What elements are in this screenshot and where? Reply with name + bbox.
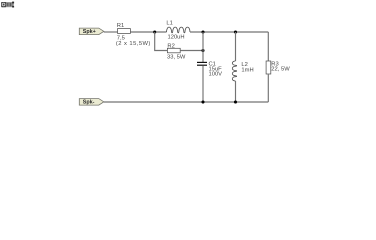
wire C1 branch lower	[202, 66, 204, 102]
wire L2 branch lower	[235, 81, 237, 102]
svg-text:1mH: 1mH	[241, 67, 253, 73]
node junction R2 output	[201, 49, 204, 52]
svg-text:Spk-: Spk-	[83, 100, 95, 106]
resistor R1	[116, 23, 151, 47]
watermark label top-left	[1, 2, 14, 8]
svg-text:22, 5W: 22, 5W	[271, 67, 290, 73]
capacitor C1	[197, 61, 222, 77]
node junction bottom of L2 branch	[234, 100, 237, 103]
resistor R3	[266, 61, 290, 74]
inductor L2	[232, 61, 253, 81]
wire L1 to top-right corner	[190, 31, 268, 33]
wire bottom rail	[104, 101, 268, 103]
wire R2 to C1 branch	[180, 50, 203, 52]
wire R2 branch vertical	[155, 32, 168, 51]
wire L2 branch upper	[235, 32, 237, 61]
inductor L1	[166, 21, 190, 41]
wire R3 branch lower	[267, 74, 269, 102]
port Spk-	[79, 99, 104, 106]
resistor R2	[167, 44, 186, 61]
node junction bottom of C1 branch	[201, 100, 204, 103]
svg-text:120uH: 120uH	[168, 34, 185, 40]
svg-text:L1: L1	[166, 21, 172, 27]
wire R3 branch upper	[267, 32, 269, 61]
wire C1 branch upper	[202, 32, 204, 62]
node junction top of L2 branch	[234, 30, 237, 33]
svg-text:R2: R2	[167, 44, 174, 50]
port Spk+	[79, 28, 104, 35]
svg-text:100V: 100V	[209, 72, 223, 78]
svg-text:R1: R1	[117, 23, 124, 29]
node junction top of C1 branch	[201, 30, 204, 33]
svg-text:(2 x 15,5W): (2 x 15,5W)	[116, 41, 151, 47]
wire R1 to L1	[130, 31, 166, 33]
svg-text:33, 5W: 33, 5W	[167, 55, 186, 61]
wire Spk+ to R1	[104, 31, 118, 33]
node junction after R1	[153, 30, 156, 33]
svg-text:Spk+: Spk+	[83, 29, 96, 35]
